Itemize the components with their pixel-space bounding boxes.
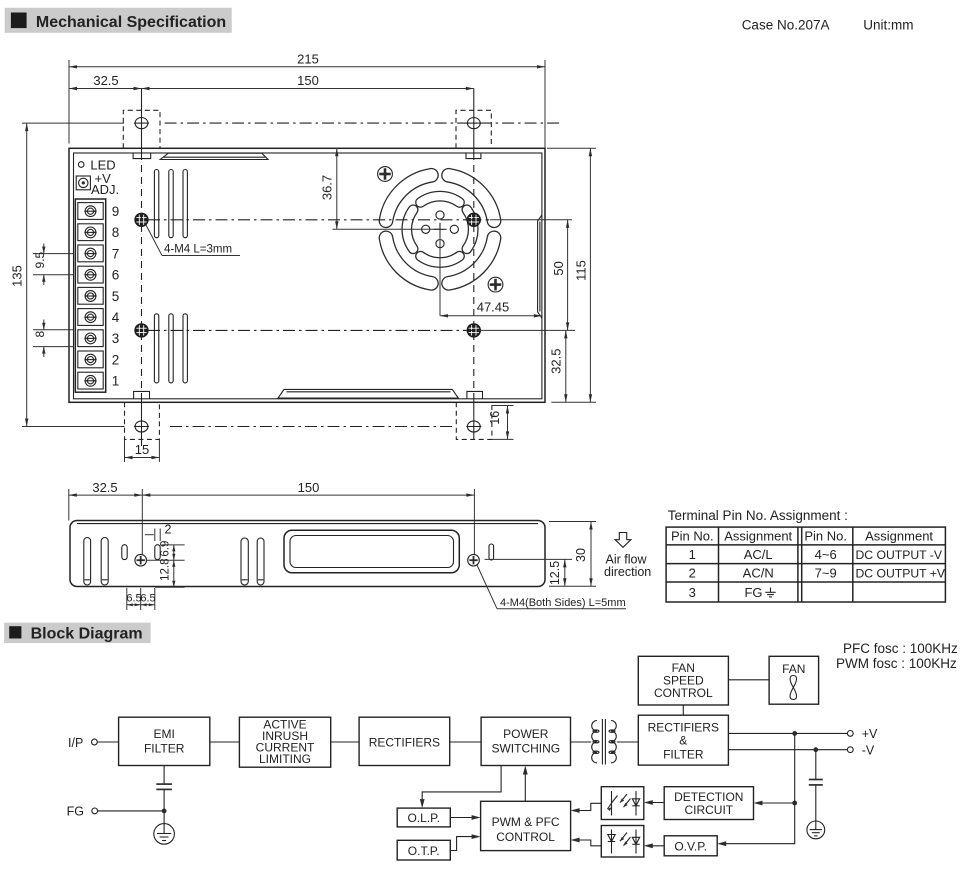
protective earth right (807, 821, 825, 839)
LED indicator (78, 162, 84, 168)
chassis screw hole C (left lower) (135, 324, 148, 337)
svg-text:2: 2 (165, 523, 172, 537)
svg-text:12.5: 12.5 (548, 561, 562, 585)
transformer T1 (592, 719, 617, 765)
side screw left 4-M4 (135, 554, 147, 566)
centerline horizontal lower screws (dash-dot) (148, 329, 478, 331)
side small slot mid (155, 545, 160, 560)
svg-text:Pin No.: Pin No. (671, 529, 714, 544)
svg-text:DC OUTPUT -V: DC OUTPUT -V (856, 548, 943, 562)
svg-text:15: 15 (135, 442, 149, 457)
svg-text:O.L.P.: O.L.P. (407, 811, 439, 825)
wire -V output (728, 749, 847, 751)
svg-text:6: 6 (112, 268, 120, 283)
fan blade symbol (790, 676, 796, 700)
block O.L.P. (397, 808, 450, 827)
svg-text:-V: -V (862, 744, 875, 758)
tab fold notch top-right (466, 153, 481, 159)
svg-text:ADJ.: ADJ. (91, 182, 119, 197)
terminal block outline (75, 199, 105, 392)
side dim 30 (549, 522, 596, 587)
terminal cell pin 6 (78, 266, 103, 283)
svg-text:32.5: 32.5 (549, 349, 564, 374)
mounting tab bottom-right (dashed) (456, 402, 492, 439)
SECTION-HEADERS (4, 8, 958, 671)
wire DETECTION to optocoupler 1 (646, 802, 664, 804)
wire -V to capacitor (815, 750, 817, 780)
tab fold notch bottom-left (134, 391, 150, 398)
junction -V branch (813, 747, 818, 752)
svg-text:8: 8 (112, 225, 120, 240)
phillips screw upper-left of fan (378, 167, 393, 182)
dim 32.5 / 150 (69, 73, 474, 90)
side view case outline (70, 521, 545, 587)
chassis screw hole A (left upper) (135, 213, 148, 226)
fan grille (386, 175, 494, 283)
side dim 12.8 (147, 559, 185, 588)
svg-text:7~9: 7~9 (815, 566, 837, 581)
svg-text:6.9: 6.9 (159, 541, 171, 557)
svg-text:I/P: I/P (68, 736, 83, 750)
svg-text:POWER: POWER (503, 727, 549, 741)
fan outer ring slots (449, 238, 494, 283)
dim 32.5 right (549, 330, 568, 402)
svg-text:215: 215 (297, 52, 319, 67)
table grid (666, 527, 945, 602)
side louver emboss (284, 530, 459, 573)
node FG terminal (67, 805, 98, 819)
wire optocoupler 1 to PWM (573, 803, 601, 810)
case inner wall (74, 153, 542, 399)
svg-text:DETECTION: DETECTION (674, 790, 743, 804)
wire O.V.P. to optocoupler 2 (646, 845, 664, 847)
wire optocoupler 2 to PWM (573, 840, 601, 846)
dim 50 (478, 220, 575, 331)
svg-text:3: 3 (689, 585, 696, 600)
side vent slot 2 (101, 538, 108, 586)
phillips screw lower-right of fan (488, 277, 503, 292)
side small slot left (122, 545, 127, 560)
svg-text:135: 135 (10, 265, 25, 287)
tab fold notch top-left (133, 153, 151, 159)
svg-text:36.7: 36.7 (320, 175, 335, 200)
svg-text:RECTIFIERS: RECTIFIERS (648, 721, 719, 735)
svg-text:CONTROL: CONTROL (654, 686, 713, 700)
svg-text:Pin No.: Pin No. (804, 529, 847, 544)
chassis screw hole D (right lower) (467, 324, 480, 337)
terminal cell pin 1 (78, 372, 103, 389)
svg-text:Block Diagram: Block Diagram (31, 626, 143, 643)
side dim 2 (145, 523, 172, 542)
svg-text:FG: FG (67, 805, 84, 819)
wire POWER SWITCHING to O.L.P. (422, 766, 501, 806)
svg-text:O.T.P.: O.T.P. (408, 844, 440, 858)
svg-text:FILTER: FILTER (663, 748, 704, 762)
side vent slot 4 (257, 538, 264, 585)
svg-text:2: 2 (689, 566, 696, 581)
dim 215 (69, 52, 545, 148)
svg-text:50: 50 (551, 261, 566, 275)
case outline top view (69, 148, 545, 402)
terminal cell pin 4 (78, 309, 103, 326)
block O.T.P. (397, 840, 450, 860)
svg-text:9.5: 9.5 (33, 252, 47, 269)
TOPVIEW (69, 89, 560, 447)
terminal cell pin 7 (78, 245, 103, 262)
block O.V.P. (664, 836, 717, 856)
svg-text:1: 1 (112, 374, 120, 389)
wire FAN SPEED CONTROL to FAN (728, 679, 769, 681)
svg-text:12.8: 12.8 (159, 559, 171, 581)
svg-text:Case No.207A: Case No.207A (742, 18, 830, 33)
wire O.T.P. to PWM (450, 837, 478, 851)
terminal cell pin 3 (78, 330, 103, 347)
TOPVIEW-DIMS (10, 52, 597, 463)
junction FG (162, 809, 167, 814)
wire capacitor to FG junction (163, 789, 165, 823)
capacitor C2 (Y-cap) (156, 784, 172, 789)
chassis screw hole B (right upper) (467, 213, 480, 226)
block ACTIVE INRUSH CURRENT LIMITING (239, 717, 330, 767)
block FAN (769, 656, 819, 704)
dim 115 (547, 148, 596, 402)
svg-text:32.5: 32.5 (93, 73, 118, 88)
svg-text:Mechanical Specification: Mechanical Specification (36, 14, 226, 31)
node -V terminal (847, 744, 874, 758)
svg-text:AC/L: AC/L (744, 547, 773, 562)
side dim 6.5 6.5 (126, 588, 155, 610)
svg-text:FAN: FAN (782, 662, 805, 676)
fan inner ring slots (467, 210, 473, 249)
terminal cell pin 2 (78, 351, 103, 368)
svg-text:4~6: 4~6 (815, 547, 837, 562)
svg-text:6.5: 6.5 (126, 592, 141, 604)
wire rail to DETECTION CIRCUIT (756, 802, 795, 804)
tab fold notch bottom-right (467, 391, 483, 398)
centerline horizontal top tabs (dash-dot) (165, 122, 560, 124)
svg-text:30: 30 (574, 548, 588, 562)
svg-text:4: 4 (112, 310, 120, 325)
louver top (160, 153, 268, 159)
wire +V output (728, 732, 847, 734)
tab hole top-left (134, 118, 149, 129)
dim 9.5 (33, 244, 74, 286)
capacitor C1 (809, 780, 823, 785)
vent slots upper group (154, 170, 187, 238)
svg-text:3: 3 (112, 331, 120, 346)
svg-text:4-M4 L=3mm: 4-M4 L=3mm (164, 244, 232, 256)
PINTABLE (666, 508, 946, 602)
wire FAN SPEED CONTROL to RECTIFIERS & FILTER (682, 705, 684, 715)
leader 4-M4 L=3mm (146, 225, 240, 256)
header bar: Mechanical Specification (5, 8, 232, 33)
svg-text:AC/N: AC/N (743, 566, 774, 581)
svg-text:47.45: 47.45 (477, 300, 510, 315)
wire POWER SWITCHING to transformer (571, 741, 592, 743)
svg-text:direction: direction (604, 565, 651, 579)
dim 47.45 (440, 229, 542, 317)
svg-text:7: 7 (112, 246, 120, 261)
terminal cell pin 5 (78, 287, 103, 304)
svg-text:32.5: 32.5 (92, 480, 117, 495)
wire PWM to POWER SWITCHING (524, 768, 526, 801)
dim 8 (33, 320, 74, 358)
terminal cell pin 8 (78, 224, 103, 241)
svg-text:FG: FG (744, 585, 762, 600)
centerline horizontal bottom tabs (dash-dot) (170, 426, 454, 428)
block RECTIFIERS & FILTER (638, 715, 728, 765)
centerline horizontal upper screws (dash-dot) (148, 219, 489, 221)
protective earth left (154, 824, 175, 845)
svg-text:PFC fosc : 100KHz: PFC fosc : 100KHz (843, 641, 958, 656)
svg-text:1: 1 (689, 547, 696, 562)
svg-text:5: 5 (112, 289, 120, 304)
svg-text:6.5: 6.5 (140, 592, 155, 604)
centerline vertical left (dashed) (141, 89, 143, 447)
air flow arrow (615, 533, 631, 548)
louver right wall (538, 215, 542, 318)
svg-text:PWM fosc : 100KHz: PWM fosc : 100KHz (836, 656, 957, 671)
svg-text:O.V.P.: O.V.P. (674, 839, 707, 853)
wire EMI FILTER to Y-capacitor (163, 766, 165, 785)
wire I/P to EMI FILTER (97, 741, 118, 743)
svg-text:CONTROL: CONTROL (496, 830, 555, 844)
side dim 12.5 (485, 559, 572, 586)
svg-text:RECTIFIERS: RECTIFIERS (369, 736, 440, 750)
louver bottom (278, 389, 458, 398)
svg-text:16: 16 (488, 411, 502, 425)
block RECTIFIERS (359, 717, 450, 765)
table row 1 (689, 547, 943, 562)
mounting tab top-left (dashed) (123, 110, 160, 148)
svg-text:115: 115 (574, 260, 589, 281)
mounting tab bottom-left (dashed) (125, 402, 160, 439)
wire capacitor to earth (815, 785, 817, 821)
wire transformer to RECTIFIERS & FILTER (617, 741, 639, 743)
wire ACTIVE INRUSH to RECTIFIERS (331, 741, 359, 743)
centerline vertical right (dashed) (473, 89, 475, 440)
svg-text:EMI: EMI (154, 727, 175, 741)
dim 135 (10, 123, 125, 426)
junction detection branch (792, 801, 797, 806)
wire FG to junction (98, 810, 165, 812)
svg-text:150: 150 (297, 73, 319, 88)
+V ADJ potentiometer (76, 176, 90, 190)
wire O.L.P. to PWM (450, 817, 478, 819)
mounting tab top-right (dashed) (456, 110, 491, 148)
block EMI FILTER (119, 717, 210, 765)
side vent slot 3 (241, 538, 248, 585)
svg-text:LIMITING: LIMITING (259, 752, 311, 766)
table header row (671, 529, 933, 544)
vent slots lower group (154, 314, 187, 383)
svg-text:Unit:mm: Unit:mm (863, 18, 913, 33)
tab hole top-right (466, 118, 481, 129)
svg-text:Terminal Pin No. Assignment :: Terminal Pin No. Assignment : (668, 508, 848, 523)
block POWER SWITCHING (481, 717, 570, 765)
svg-text:Assignment: Assignment (724, 529, 792, 544)
svg-text:FILTER: FILTER (144, 742, 185, 756)
wire +V sense rail (720, 733, 795, 843)
svg-text:CIRCUIT: CIRCUIT (684, 803, 733, 817)
BLOCKDIAGRAM (67, 656, 878, 860)
svg-text:&: & (679, 734, 687, 748)
svg-text:SWITCHING: SWITCHING (491, 742, 560, 756)
side small slot right (489, 544, 494, 560)
svg-text:PWM & PFC: PWM & PFC (492, 815, 560, 829)
terminal cell pin 9 (78, 203, 103, 220)
svg-text:2: 2 (112, 352, 120, 367)
wire RECTIFIERS to POWER SWITCHING (450, 741, 481, 743)
svg-text:DC OUTPUT +V: DC OUTPUT +V (856, 567, 946, 581)
tab hole bottom-right (466, 421, 481, 432)
optocoupler U2 (601, 826, 644, 858)
block FAN SPEED CONTROL (638, 656, 728, 705)
table row 3 with FG earth symbol (689, 585, 776, 600)
dim 16 (488, 406, 514, 440)
optocoupler U1 (601, 787, 644, 820)
side dim 32.5 / 150 (69, 480, 475, 554)
svg-text:+V: +V (862, 727, 878, 741)
side view top edge inner line (77, 523, 538, 525)
block DETECTION CIRCUIT (664, 787, 753, 820)
dim 36.7 (320, 148, 441, 229)
SIDEVIEW (69, 480, 651, 610)
svg-text:4-M4(Both Sides) L=5mm: 4-M4(Both Sides) L=5mm (500, 597, 626, 609)
node +V terminal (847, 727, 878, 741)
side dim 6.9 (159, 541, 184, 561)
svg-text:150: 150 (298, 480, 320, 495)
junction on +V rail (792, 731, 797, 736)
tab hole bottom-left (134, 421, 149, 432)
block PWM & PFC CONTROL (481, 801, 571, 850)
wire EMI to ACTIVE INRUSH (210, 741, 240, 743)
dim 15 (125, 440, 160, 462)
side screw right 4-M4 (468, 554, 480, 566)
node I/P input terminal (68, 736, 97, 750)
fan hub holes (436, 211, 444, 219)
table row 2 (689, 566, 946, 581)
side vent slot 1 (84, 538, 91, 586)
svg-text:8: 8 (33, 331, 47, 338)
fan center cross (434, 223, 447, 236)
header bar: Block Diagram (4, 623, 151, 643)
leader 4-M4(Both Sides) L=5mm (477, 565, 626, 609)
svg-text:9: 9 (112, 204, 120, 219)
svg-text:Assignment: Assignment (865, 529, 933, 544)
